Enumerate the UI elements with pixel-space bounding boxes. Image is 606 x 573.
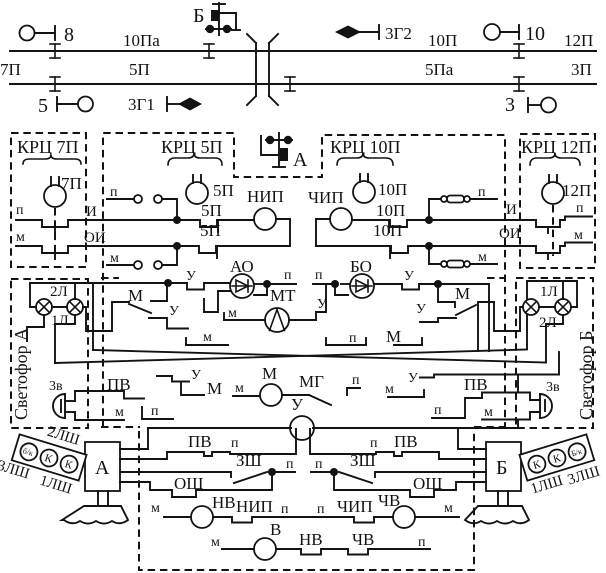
svg-text:У: У: [186, 269, 196, 284]
wire p stub AO: [267, 268, 296, 284]
KRC 7P brace: [23, 155, 81, 164]
node junction OI right: [425, 242, 433, 250]
relay 5P: [186, 175, 234, 204]
svg-text:м: м: [385, 382, 394, 397]
signal B dwarf symbol: [193, 3, 240, 35]
relay 12P: [542, 175, 591, 204]
svg-text:МТ: МТ: [270, 286, 296, 305]
node junction OI feed: [173, 242, 181, 250]
mast B base: [465, 506, 529, 524]
svg-text:м: м: [574, 228, 583, 243]
wire 2LB bottom staircase: [546, 315, 563, 361]
mast B post: [498, 491, 508, 506]
middle dashed box top-right corner: [487, 277, 505, 279]
svg-text:ЧИП: ЧИП: [337, 497, 373, 516]
svg-text:КРЦ 12П: КРЦ 12П: [521, 137, 592, 157]
wire track 10Pa-10P main line: [10, 50, 596, 52]
svg-text:п: п: [349, 331, 357, 346]
node insulated joint track2 x519: [514, 77, 524, 91]
wire lamp link A: [52, 306, 67, 308]
svg-text:2Л: 2Л: [539, 315, 557, 331]
svg-text:10П: 10П: [378, 180, 407, 199]
contact OSh row A: [120, 472, 272, 497]
wire P corner stub right: [434, 403, 442, 418]
lamp unit B tilted: [519, 434, 601, 500]
relay ChV: [378, 491, 459, 528]
KRC 7P dashed box: [11, 133, 86, 267]
svg-text:10П: 10П: [376, 201, 405, 220]
svg-text:п: п: [576, 201, 584, 216]
wire lamp link B: [539, 306, 555, 308]
contact M cluster right: [438, 284, 494, 351]
svg-text:м: м: [444, 501, 453, 516]
wire bell B upper to PV contact: [432, 375, 540, 419]
svg-text:В: В: [270, 520, 281, 539]
wire p stub B: [311, 457, 334, 472]
node junction I feed: [173, 216, 181, 224]
svg-text:п: п: [110, 185, 118, 200]
contact U bridge right: [374, 269, 438, 290]
svg-text:10: 10: [525, 23, 545, 45]
svg-text:НВ: НВ: [212, 493, 236, 512]
svg-text:ЗШ: ЗШ: [236, 451, 262, 470]
node insulated joint track2 x55: [50, 77, 60, 91]
wire bell A lower to M stub: [75, 405, 124, 420]
svg-text:п: п: [315, 457, 323, 472]
contact 12P back to m: [536, 228, 592, 259]
contact 7P back (OI wire): [16, 230, 199, 259]
relay 7P: [44, 174, 82, 207]
svg-text:8: 8: [64, 24, 74, 46]
svg-text:У: У: [169, 304, 179, 319]
svg-text:5П: 5П: [201, 201, 222, 220]
mast A rectangle: [85, 442, 120, 491]
contact PV row B: [310, 429, 486, 459]
wire p stub A: [272, 457, 295, 472]
svg-text:5: 5: [38, 95, 48, 117]
wire track 5P-5Pa main line: [10, 83, 596, 85]
contact plug P with circles: [107, 185, 177, 216]
mast A post: [98, 491, 108, 506]
svg-text:1Л: 1Л: [51, 313, 69, 329]
svg-text:ЧИП: ЧИП: [308, 188, 344, 207]
lamp 1L signal B: [523, 284, 558, 315]
wire m stub M left: [233, 381, 260, 396]
signal 10: [484, 23, 545, 45]
svg-text:КРЦ 10П: КРЦ 10П: [330, 137, 401, 157]
diode AO: [230, 257, 263, 298]
resistor branch P upper: [429, 185, 497, 220]
svg-text:А: А: [95, 457, 110, 479]
svg-text:п: п: [478, 185, 486, 200]
wire p stub BO: [313, 268, 335, 284]
wire AO lower staircase: [204, 291, 231, 312]
contact U lower right: [408, 352, 559, 386]
svg-text:М: М: [128, 286, 143, 305]
svg-text:п: п: [370, 436, 378, 451]
bottom dashed box: [139, 431, 474, 570]
svg-text:ПВ: ПВ: [464, 375, 488, 394]
svg-text:п: п: [418, 535, 426, 550]
svg-text:м: м: [110, 251, 119, 266]
svg-text:м: м: [484, 405, 493, 420]
relay NV: [151, 493, 236, 528]
svg-text:Светофор А: Светофор А: [11, 328, 31, 420]
wire 1LB left connect: [494, 302, 523, 331]
track plan top: [0, 3, 596, 117]
wire cross long 1: [93, 350, 546, 363]
svg-text:м: м: [478, 250, 487, 265]
svetofor B dashed box: [516, 278, 593, 428]
contact NIP row: [213, 497, 306, 523]
contact 5P front on I wire: [200, 201, 222, 232]
svg-text:НВ: НВ: [299, 530, 323, 549]
contact ZSh row B: [339, 451, 486, 483]
svg-text:У: У: [404, 269, 414, 284]
wire AO curl under: [254, 284, 267, 295]
KRC 5P brace: [168, 153, 222, 165]
motor MT: [265, 286, 296, 332]
svg-text:п: п: [352, 373, 360, 388]
KRC 12P brace: [530, 153, 580, 165]
contact PV row A: [120, 429, 296, 459]
signal 3G2 diamond: [335, 24, 412, 43]
svg-text:п: п: [151, 404, 159, 419]
svg-text:п: п: [284, 268, 292, 283]
signal 5: [38, 95, 93, 117]
svg-text:У: У: [408, 371, 418, 386]
svg-text:ЧВ: ЧВ: [378, 491, 400, 510]
wire 2L bottom drop: [27, 315, 44, 341]
relay U: [290, 395, 314, 440]
svg-text:3: 3: [505, 94, 515, 116]
bell 3v signal A: [49, 379, 75, 420]
wire 1L right connect: [83, 307, 112, 331]
svg-text:М: М: [455, 284, 470, 303]
node insulated joint track1 x209: [204, 44, 214, 58]
svg-text:У: У: [416, 302, 426, 317]
wire bell A upper to PV contact: [75, 375, 144, 399]
wire I into NIP: [217, 219, 254, 221]
node insulated joint track2 x290: [285, 77, 295, 91]
svg-text:м: м: [235, 381, 244, 396]
relay CHIP: [308, 188, 352, 230]
node insulated joint track1 x519: [514, 44, 524, 58]
contact M cluster left: [112, 284, 167, 331]
signal 3G1 diamond: [128, 95, 202, 114]
svg-text:м: м: [16, 230, 25, 245]
wire M stub mid-right: [386, 327, 422, 346]
contact 10P front on I wire: [352, 201, 536, 232]
contact U bridge left: [168, 269, 230, 290]
wire BO right end: [438, 284, 489, 351]
wire MT right riser: [289, 284, 327, 320]
wire P corner stub left: [142, 404, 173, 419]
svg-text:м: м: [115, 405, 124, 420]
svg-text:НИП: НИП: [236, 497, 273, 516]
node junction BO right: [434, 280, 442, 288]
svg-text:5П: 5П: [129, 60, 150, 79]
svg-text:12П: 12П: [562, 181, 591, 200]
wire NIP loop to OI: [216, 219, 290, 246]
svg-text:5П: 5П: [213, 181, 234, 200]
contact OSh row B: [334, 472, 486, 497]
wire p stub mid-center: [326, 331, 366, 346]
wire m stub MG right: [385, 382, 424, 397]
contact U step right: [416, 302, 456, 322]
contact NV row bottom: [276, 530, 348, 555]
svg-text:МГ: МГ: [299, 372, 324, 391]
signal 3: [505, 94, 556, 116]
svg-text:М: М: [262, 364, 277, 383]
armature dashed link 7P: [54, 208, 56, 256]
svg-text:10П: 10П: [428, 31, 457, 50]
wire BO curl under: [335, 284, 348, 295]
svg-text:п: п: [281, 502, 289, 517]
node junction p A: [268, 468, 276, 476]
node insulated joint track1 x55: [50, 44, 60, 58]
svg-text:3в: 3в: [546, 380, 560, 395]
svg-text:У: У: [291, 395, 304, 414]
contact ChV row bottom: [348, 530, 430, 555]
svg-text:3П: 3П: [571, 60, 592, 79]
contact ZSh row A: [120, 451, 267, 483]
diode BO: [341, 257, 374, 298]
signal 8: [20, 24, 75, 46]
svg-text:п: п: [317, 502, 325, 517]
relay NIP: [247, 187, 284, 230]
svg-text:м: м: [211, 535, 220, 550]
svg-text:м: м: [151, 501, 160, 516]
wire lamp 2LB top tee: [562, 281, 564, 299]
svg-text:ПВ: ПВ: [394, 432, 418, 451]
svg-text:п: п: [16, 203, 24, 218]
contact 7P front (I wire): [16, 203, 200, 233]
wire m stub MT left: [224, 306, 265, 321]
svg-text:М: М: [207, 379, 222, 398]
svg-text:п: п: [434, 403, 442, 418]
signal A dwarf symbol: [261, 133, 308, 171]
lamp 1L signal A: [51, 299, 83, 329]
svg-text:Б: Б: [193, 5, 204, 27]
svg-text:М: М: [386, 327, 401, 346]
contact 5P back on OI wire: [199, 221, 221, 258]
contact 10P back on OI wire: [373, 221, 536, 258]
mast A base: [62, 506, 128, 524]
svg-text:У: У: [191, 368, 201, 383]
svg-text:5П: 5П: [200, 221, 221, 240]
KRC 10P brace: [337, 153, 393, 165]
node junction AO right: [263, 280, 271, 288]
svetofor A dashed box: [11, 279, 88, 428]
svg-text:п: п: [315, 268, 323, 283]
contact U step left: [149, 304, 188, 329]
svg-text:А: А: [293, 149, 308, 171]
armature dashed link 12P: [552, 205, 554, 256]
svg-text:3в: 3в: [49, 379, 63, 394]
contact MG blade: [282, 372, 360, 405]
svg-text:НИП: НИП: [247, 187, 284, 206]
svg-text:м: м: [203, 330, 212, 345]
svg-text:10П: 10П: [373, 221, 402, 240]
svg-text:И: И: [506, 202, 517, 218]
contact 12P front to p: [536, 201, 592, 233]
contact U above MG: [157, 368, 204, 395]
crossover between tracks: [247, 34, 278, 105]
wire U row right: [313, 427, 518, 429]
svg-text:Светофор Б: Светофор Б: [576, 330, 596, 420]
svg-text:2Л: 2Л: [50, 284, 68, 300]
svg-text:12П: 12П: [564, 31, 593, 50]
resistor branch M lower: [429, 246, 497, 268]
node junction I right: [425, 216, 433, 224]
wire cross long 2: [55, 281, 577, 363]
wire lamp A top feed: [30, 283, 168, 307]
wire lamp 1L top tee: [74, 283, 76, 299]
svg-text:п: п: [231, 436, 239, 451]
svg-text:1Л: 1Л: [540, 284, 558, 300]
svg-text:ЧВ: ЧВ: [352, 530, 374, 549]
lamp 2L signal B: [539, 299, 571, 331]
bell 3v signal B: [482, 380, 560, 428]
wire U row left: [148, 427, 291, 429]
svg-text:КРЦ 7П: КРЦ 7П: [17, 137, 79, 157]
wire 1L bottom staircase: [55, 315, 75, 363]
svg-text:10Па: 10Па: [123, 31, 160, 50]
middle dashed box bottom edge: [101, 426, 140, 428]
middle dashed box top-left corner: [101, 277, 119, 279]
svg-text:м: м: [228, 306, 237, 321]
svg-text:5Па: 5Па: [425, 60, 454, 79]
wire CHIP loop: [316, 219, 391, 246]
svg-text:ОИ: ОИ: [499, 226, 521, 242]
svg-text:Б: Б: [496, 457, 507, 479]
wire mast B to U row: [458, 428, 486, 449]
relay M: [260, 364, 282, 406]
svg-text:ПВ: ПВ: [188, 432, 212, 451]
mast B rectangle: [486, 442, 521, 491]
svg-text:3Г1: 3Г1: [128, 95, 155, 114]
lamp 2L signal A: [36, 284, 68, 315]
wire bell B lower to m stub: [484, 405, 493, 420]
wire lamp A branch down: [92, 283, 94, 350]
wire mast A to U row: [120, 428, 148, 449]
relay 10P: [353, 174, 407, 203]
svg-text:п: п: [286, 457, 294, 472]
combined dashed outline KRC 5P / middle box left edge: [103, 133, 505, 428]
contact ChIP row: [300, 497, 393, 523]
node junction p B: [330, 468, 338, 476]
relay V: [211, 520, 281, 560]
KRC 12P dashed box: [520, 134, 595, 268]
wire m stub mid-left: [186, 330, 228, 345]
svg-text:И: И: [86, 204, 97, 220]
node junction BO left: [331, 280, 339, 288]
svg-text:3Г2: 3Г2: [385, 24, 412, 43]
lamp unit A tilted: [0, 413, 92, 499]
svg-text:КРЦ 5П: КРЦ 5П: [161, 137, 223, 157]
contact plug M with circles: [107, 250, 177, 269]
svg-text:7П: 7П: [61, 174, 82, 193]
node junction AO row left: [164, 279, 172, 287]
svg-text:7П: 7П: [0, 60, 21, 79]
svg-text:ЗШ: ЗШ: [350, 451, 376, 470]
